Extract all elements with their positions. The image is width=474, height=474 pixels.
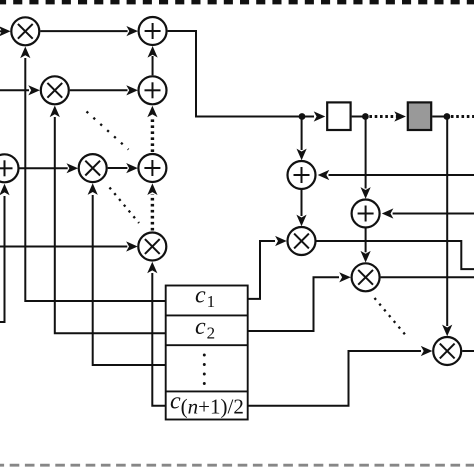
wire from left edge up into adder A4 [0,196,5,322]
node J3 junction dot on delay line [444,113,451,120]
wire tap J1 down into adder A5 [301,120,303,151]
wire M5 output right then step down to right edge [317,241,474,269]
multiplier M2 [41,76,69,104]
coefficient table row separators [166,314,248,316]
multiplier M5 [288,227,316,255]
adder A5 [288,161,316,189]
wire delay box D2 output to node J3 [432,116,447,118]
wire coefficient c1 from table to multiplier M5 [248,241,275,299]
adder A2 [139,76,167,104]
dotted wire J2 to delay box D2 with arrow [369,115,398,118]
wire adder A4 output into multiplier M3 [20,167,68,169]
wire coefficient c(n+1)/2 from table to multiplier M7 [248,351,421,406]
wire coefficient c1 from table left to riser into multiplier M1 [25,58,165,301]
dashed figure border bottom [0,464,474,467]
wire from right edge into adder A5 [329,174,474,176]
multiplier M1 [11,17,39,45]
wire tap J3 down into multiplier M7 [446,120,448,327]
table vertical dots [203,354,206,357]
delay box D1 (white square) [327,102,350,130]
multiplier M4 [138,233,166,261]
wire input arrow into multiplier M2 from left edge [0,89,29,91]
dotted continuation diagonal between M2 and A3 [87,112,129,150]
dotted wire M4 output up into adder A3 [151,194,154,231]
adder A1 [139,17,167,45]
dotted wire J3 continuing to right edge [451,115,474,118]
wire M6 output to right edge [381,276,474,278]
dashed figure border top [0,0,474,4]
dotted wire A3 output up into adder A2 [151,116,154,152]
multiplier M7 [433,337,461,365]
dotted continuation diagonal between M6 and M7 [375,298,409,338]
wire adder A6 output down into multiplier M6 [365,229,367,253]
adder A6 [352,200,380,228]
wire input arrow into multiplier M1 from left edge [0,30,3,32]
dotted continuation diagonal between M3 and M4 [110,188,140,224]
coefficient table outline [166,286,248,420]
adder A4 (clipped at left edge) [0,154,19,182]
node J1 junction dot on delay line [299,113,306,120]
delay box D2 (gray square) [408,102,431,130]
wire A1 output right then down then right to delay-line node [168,31,302,117]
multiplier M3 [79,154,107,182]
node J2 junction dot on delay line [362,113,369,120]
wire delay box D1 output to node J2 [352,116,366,118]
wire dotted-row coefficient from table left to riser into multiplier M3 [93,195,166,365]
wire from right edge into adder A6 [393,213,474,215]
wire M7 output to right edge [462,350,474,352]
wire M2 output to adder A2 [70,89,128,91]
wire coefficient c2 from table left to riser into multiplier M2 [55,117,166,333]
wire coefficient c2 from table to multiplier M6 [248,277,339,331]
wire J1 to delay box D1 with arrow [302,116,314,118]
adder A3 [138,154,166,182]
wire from left edge into multiplier M4 [0,246,127,248]
multiplier M6 [352,263,380,291]
wire tap J2 down into adder A6 [365,120,367,189]
wire adder A5 output down into multiplier M5 [301,190,303,216]
wire M3 output into adder A3 [108,167,128,169]
wire coefficient c(n+1)/2 from table left to riser into multiplier M4 [152,273,165,406]
wire M1 output to adder A1 [40,30,127,32]
wire adder A2 output up into adder A1 [152,56,154,75]
